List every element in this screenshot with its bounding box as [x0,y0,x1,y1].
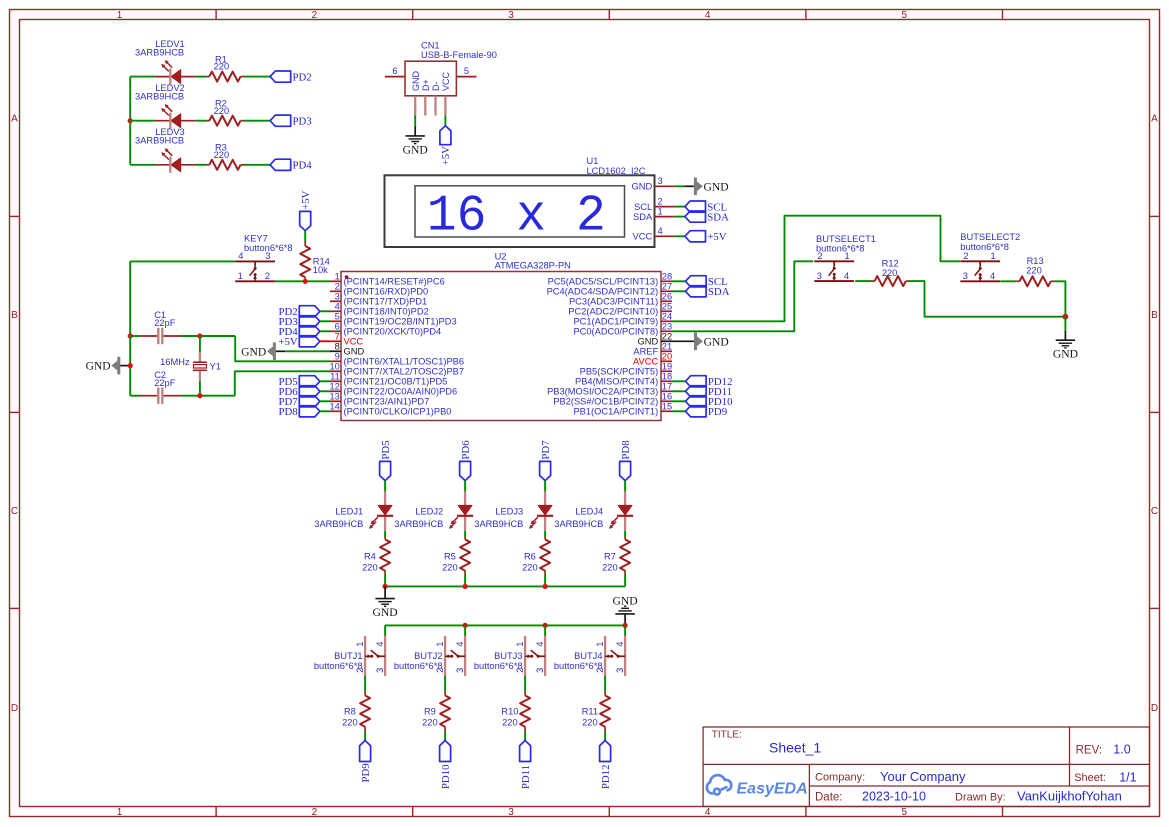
net flag PD3 at U2 [278,316,319,328]
wire PD5 to U2 [320,380,330,382]
svg-text:PD6: PD6 [460,440,472,460]
svg-text:LEDJ1: LEDJ1 [335,506,363,516]
svg-text:3: 3 [508,807,514,818]
svg-text:3: 3 [615,668,625,673]
wire BUTJ2 to R9 [444,676,446,692]
wire rail to BUTJ2 [464,625,466,636]
wire LED ground rail [385,585,625,587]
svg-text:GND: GND [632,182,653,192]
net flag PD4 at U2 [278,326,319,338]
svg-text:1: 1 [117,10,123,21]
net flag PD2 [270,71,312,83]
svg-text:220: 220 [422,717,438,727]
svg-text:220: 220 [602,562,618,572]
svg-text:PD10: PD10 [440,764,452,789]
wire U2 pin23 to BUTSELECT1 [672,261,813,331]
svg-text:3ARB9HCB: 3ARB9HCB [394,519,443,529]
ground flag GND at left bus [86,357,131,375]
wire PD7 to U2 [320,400,330,402]
wire R10 to PD11 flag [524,732,526,741]
ground flag GND at U2 pin8 [241,343,276,361]
junction rail LEDJ1 [383,584,388,589]
net flag PD3 [270,115,312,127]
svg-text:5: 5 [902,807,908,818]
junction left bus at C1 [128,333,133,338]
wire C1 row [130,335,140,337]
svg-text:button6*6*8: button6*6*8 [960,242,1009,252]
wire U2 to SDA flag [672,290,686,292]
net flag PD7 at U2 [278,396,319,408]
svg-text:LCD1602_I2C: LCD1602_I2C [587,166,646,176]
svg-text:10k: 10k [313,265,328,275]
resistor R13 220 [1016,256,1054,286]
svg-text:16: 16 [662,392,672,402]
net flag PD10 below R9 [440,741,452,790]
power flag +5V above R14 [300,190,312,230]
svg-text:2: 2 [312,807,318,818]
wire +5V to U2 pin7 [320,340,330,342]
svg-text:8: 8 [335,342,340,352]
wire LEDJ1 to R4 [384,531,386,537]
wire PD2 to U2 [320,310,330,312]
svg-text:1: 1 [117,807,123,818]
wire PD8 to U2 [320,410,330,412]
svg-text:13: 13 [329,392,339,402]
junction rail LEDJ3 [543,584,548,589]
svg-text:6: 6 [392,66,397,76]
svg-text:3: 3 [817,271,822,281]
ground symbol inverted above button rail [613,595,638,614]
module U1 LCD1602_I2C [385,156,675,247]
wire LCD SCL pin [675,206,685,208]
net flag SDA at U2 [686,286,730,298]
svg-text:11: 11 [330,372,340,382]
svg-text:220: 220 [522,562,538,572]
svg-text:VCC: VCC [441,71,451,91]
wire R9 to PD10 flag [444,732,446,741]
svg-text:22: 22 [662,332,672,342]
net flag PD6 at U2 [278,386,319,398]
svg-text:220: 220 [214,62,230,72]
svg-text:2023-10-10: 2023-10-10 [862,789,926,803]
svg-text:AVCC: AVCC [633,357,658,367]
wire PD5 flag to LEDJ1 [384,481,386,492]
wire rail to ground left [384,586,386,598]
svg-text:PD11: PD11 [520,765,532,789]
ground symbol under CN1 [403,136,428,157]
svg-text:GND: GND [613,595,638,608]
svg-text:3: 3 [375,668,385,673]
wire R1 to PD2 flag [244,76,271,78]
capacitor C1 [140,310,181,344]
svg-text:(PCINT17/TXD)PD1: (PCINT17/TXD)PD1 [344,297,428,307]
wire LCD SDA pin [675,216,685,218]
wire BUTSELECT2 to R13 [1000,280,1016,282]
svg-text:(PCINT20/XCK/T0)PD4: (PCINT20/XCK/T0)PD4 [344,327,442,337]
svg-text:5: 5 [464,66,469,76]
net flag PD11 at U2 [686,386,733,398]
resistor R1 220 [206,54,243,81]
pushbutton BUTJ1 [314,636,385,676]
svg-text:R5: R5 [444,552,456,562]
net flag PD12 below R11 [600,741,612,790]
svg-text:Your Company: Your Company [880,769,966,784]
svg-text:1: 1 [991,251,996,261]
LED LEDV2 [135,83,195,129]
ground flag GND at LCD pin 3 [694,178,729,196]
LED LEDV1 [135,39,195,85]
capacitor C2 [140,370,181,404]
svg-text:19: 19 [662,362,672,372]
net flag SCL at U2 [686,276,728,288]
svg-text:BUTSELECT2: BUTSELECT2 [960,232,1020,242]
svg-text:R11: R11 [582,707,598,717]
wire rail to BUTJ3 [544,625,546,636]
svg-text:PD8: PD8 [278,406,297,418]
svg-text:LEDJ2: LEDJ2 [415,506,443,516]
svg-text:4: 4 [335,302,340,312]
svg-text:Date:: Date: [815,791,843,803]
junction on LED bus [128,118,133,123]
svg-text:button6*6*8: button6*6*8 [314,661,363,671]
svg-text:1: 1 [515,642,525,647]
svg-text:BUTSELECT1: BUTSELECT1 [816,234,876,244]
svg-text:4: 4 [705,10,711,21]
svg-text:4: 4 [990,271,995,281]
wire R4 to rail [384,574,386,587]
wire PD8 flag to LEDJ4 [624,481,626,492]
pushbutton KEY7 [235,233,292,281]
svg-text:PB2(SS#/OC1B/PCINT2): PB2(SS#/OC1B/PCINT2) [553,397,658,407]
wire rail to BUTJ4 [624,625,626,636]
svg-text:(PCINT18/INT0)PD2: (PCINT18/INT0)PD2 [344,307,429,317]
svg-text:16MHz: 16MHz [160,357,190,367]
svg-text:button6*6*8: button6*6*8 [474,661,523,671]
wire U2 to PD11 flag [672,390,686,392]
wire R6 to rail [544,574,546,587]
svg-text:R9: R9 [424,707,436,717]
wire GND flag to U2 pin8 [276,350,285,352]
svg-text:16 x 2: 16 x 2 [427,188,606,245]
wire Y1 top to U2 pin9 [235,336,330,361]
svg-text:3: 3 [455,668,465,673]
wire to LEDV2 [130,120,155,122]
net flag PD9 at U2 [686,406,728,418]
svg-text:(PCINT16/RXD)PD0: (PCINT16/RXD)PD0 [344,287,429,297]
wire LEDV3 to R3 [195,164,206,166]
svg-text:18: 18 [662,372,672,382]
svg-text:+5V: +5V [440,146,452,165]
svg-text:PC5(ADC5/SCL/PCINT13): PC5(ADC5/SCL/PCINT13) [548,277,659,287]
wire to LEDV1 [130,76,155,78]
pushbutton BUTJ4 [554,636,625,676]
svg-text:GND: GND [373,606,398,619]
svg-text:3ARB9HCB: 3ARB9HCB [135,47,184,57]
wire KEY7 pin2 to U2 pin1 [275,280,330,282]
resistor R8 220 [342,692,370,732]
LED LEDJ3 [474,492,553,531]
svg-text:SCL: SCL [634,202,652,212]
svg-text:Drawn By:: Drawn By: [955,791,1006,803]
svg-text:220: 220 [442,562,458,572]
svg-text:A: A [1151,114,1158,125]
wire PD3 to U2 [320,320,330,322]
svg-text:D: D [11,703,18,714]
svg-text:PD9: PD9 [360,763,372,782]
wire LED cathode bus [129,77,131,165]
svg-text:23: 23 [662,322,672,332]
svg-text:(PCINT6/XTAL1/TOSC1)PB6: (PCINT6/XTAL1/TOSC1)PB6 [344,357,465,367]
svg-text:R10: R10 [501,707,518,717]
svg-text:21: 21 [662,342,672,352]
resistor R3 220 [206,143,243,170]
svg-text:4: 4 [844,271,849,281]
net flag PD6 above LEDJ2 [460,440,472,481]
net flag PD5 at U2 [278,376,319,388]
svg-text:PD7: PD7 [540,440,552,460]
wire +5V to R14 [304,231,306,242]
svg-text:GND: GND [1053,348,1078,361]
svg-text:LEDJ4: LEDJ4 [575,506,603,516]
svg-text:BUTJ4: BUTJ4 [574,651,602,661]
svg-text:3ARB9HCB: 3ARB9HCB [135,136,184,146]
svg-text:220: 220 [882,268,898,278]
ground flag GND at U2 pin22 [694,333,729,351]
svg-text:1: 1 [658,206,663,216]
wire U2 to SCL flag [672,280,686,282]
power flag +5V at U2 pin7 [278,336,319,348]
net flag PD8 above LEDJ4 [620,440,632,480]
ground symbol LED rail [373,599,398,620]
svg-text:R6: R6 [524,552,536,562]
svg-text:9: 9 [335,352,340,362]
svg-text:D-: D- [431,82,441,92]
wire junction to ground [1064,317,1066,331]
svg-text:REV:: REV: [1076,745,1102,757]
svg-text:17: 17 [662,382,672,392]
svg-text:220: 220 [582,717,598,727]
junction rail LEDJ2 [463,584,468,589]
resistor R10 220 [501,692,530,732]
svg-text:PC2(ADC2/PCINT10): PC2(ADC2/PCINT10) [568,307,658,317]
svg-text:28: 28 [662,272,672,282]
svg-text:Y1: Y1 [210,362,221,372]
resistor R6 220 [522,537,550,574]
wire U2 to PD10 flag [672,400,686,402]
svg-text:A: A [11,114,18,125]
svg-text:20: 20 [662,352,672,362]
net flag PD2 at U2 [278,306,319,318]
svg-text:PB5(SCK/PCINT5): PB5(SCK/PCINT5) [580,367,659,377]
connector CN1 USB-B-Female-90 [385,40,497,115]
svg-text:PD4: PD4 [293,160,313,172]
wire R5 to rail [464,574,466,587]
svg-text:SDA: SDA [708,286,730,298]
wire R2 to PD3 flag [244,120,271,122]
svg-text:24: 24 [662,312,672,322]
svg-text:(PCINT7/XTAL2/TOSC2)PB7: (PCINT7/XTAL2/TOSC2)PB7 [344,367,465,377]
wire LEDV1 to R1 [195,76,206,78]
svg-text:AREF: AREF [633,347,658,357]
svg-text:12: 12 [329,382,339,392]
svg-text:PC4(ADC4/SDA/PCINT12): PC4(ADC4/SDA/PCINT12) [547,287,659,297]
wire ground to button rail [624,614,626,626]
wire U2 pin24 to BUTSELECT2 [672,216,960,322]
net flag PD5 above LEDJ1 [380,440,392,480]
svg-text:PD8: PD8 [620,440,632,459]
svg-text:(PCINT19/OC2B/INT1)PD3: (PCINT19/OC2B/INT1)PD3 [344,317,457,327]
svg-text:GND: GND [704,335,729,348]
svg-text:C: C [1151,506,1158,517]
svg-text:VCC: VCC [344,337,364,347]
svg-text:3ARB9HCB: 3ARB9HCB [314,519,363,529]
svg-text:4: 4 [658,226,663,236]
svg-text:2: 2 [265,271,270,281]
junction BUTSELECT common [1063,314,1069,320]
svg-text:15: 15 [662,402,672,412]
wire PD6 to U2 [320,390,330,392]
svg-text:D+: D+ [421,79,431,91]
svg-text:C: C [11,506,18,517]
wire BUTSELECT1 to R12 [855,280,871,282]
wire CN1 pin1 to ground [414,116,416,127]
pushbutton BUTSELECT1 [814,234,876,281]
net flag SCL at LCD [685,201,727,213]
svg-text:SDA: SDA [633,212,653,222]
wire PD7 flag to LEDJ3 [544,481,546,492]
wire LEDJ2 to R5 [464,531,466,537]
svg-text:R13: R13 [1027,256,1044,266]
wire R3 to PD4 flag [244,164,271,166]
wire U2 pin22 to ground flag [672,340,694,342]
svg-text:PC3(ADC3/PCINT11): PC3(ADC3/PCINT11) [569,297,658,307]
svg-text:R4: R4 [364,552,376,562]
svg-text:button6*6*8: button6*6*8 [244,243,293,253]
svg-text:14: 14 [329,402,339,412]
svg-text:PC0(ADC0/PCINT8): PC0(ADC0/PCINT8) [573,327,658,337]
svg-text:2: 2 [335,282,340,292]
svg-text:10: 10 [329,362,339,372]
EasyEDA logo [707,775,808,797]
svg-text:26: 26 [662,292,672,302]
svg-text:PD12: PD12 [600,764,612,789]
svg-text:7: 7 [335,332,340,342]
ground symbol BUTSELECT [1053,340,1078,361]
wire R13 down to junction [1054,281,1066,316]
svg-text:22pF: 22pF [154,378,176,388]
net flag PD4 [270,159,312,171]
junction Y1 bottom [197,393,202,398]
svg-text:4: 4 [535,642,545,647]
pushbutton BUTJ2 [394,636,465,676]
svg-text:3ARB9HCB: 3ARB9HCB [554,519,603,529]
net flag PD8 at U2 [278,406,319,418]
svg-text:1: 1 [355,642,365,647]
pushbutton BUTJ3 [474,636,545,676]
svg-text:2: 2 [658,196,663,206]
svg-text:25: 25 [662,302,672,312]
svg-text:4: 4 [375,642,385,647]
wire left bus C1 to C2 [129,336,131,396]
svg-text:4: 4 [455,642,465,647]
wire R7 to rail [624,574,626,587]
svg-text:VanKuijkhofYohan: VanKuijkhofYohan [1017,788,1122,803]
junction R14 bottom [303,279,308,284]
crystal Y1 16MHz [160,336,221,396]
wire R8 to PD9 flag [364,732,366,741]
svg-text:BUTJ1: BUTJ1 [334,651,362,661]
svg-text:4: 4 [705,807,711,818]
svg-text:Sheet:: Sheet: [1074,772,1106,784]
svg-text:3ARB9HCB: 3ARB9HCB [135,92,184,102]
svg-text:+5V: +5V [707,231,726,243]
svg-text:220: 220 [342,717,358,727]
svg-text:VCC: VCC [633,232,653,242]
svg-text:3ARB9HCB: 3ARB9HCB [474,519,523,529]
pushbutton BUTSELECT2 [960,232,1020,281]
svg-text:R8: R8 [344,707,356,717]
net flag SDA at LCD [685,211,729,223]
svg-text:PB1(OC1A/PCINT1): PB1(OC1A/PCINT1) [573,407,658,417]
LED LEDJ2 [394,492,473,531]
resistor R12 220 [871,259,909,287]
junction Y1 top [197,333,202,338]
junction left bus at GND [128,363,133,368]
svg-text:button6*6*8: button6*6*8 [554,661,603,671]
svg-text:D: D [1151,703,1158,714]
svg-text:GND: GND [638,337,659,347]
wire BUTJ1 to R8 [364,676,366,692]
wire U2 to PD9 flag [672,410,686,412]
svg-text:(PCINT23/AIN1)PD7: (PCINT23/AIN1)PD7 [344,397,430,407]
svg-text:3: 3 [508,10,514,21]
wire Y1 bottom to U2 pin10 [235,371,330,395]
wire PD6 flag to LEDJ2 [464,481,466,492]
svg-text:PB4(MISO/PCINT4): PB4(MISO/PCINT4) [575,377,658,387]
svg-text:BUTJ2: BUTJ2 [414,651,442,661]
svg-text:1: 1 [435,642,445,647]
resistor R4 220 [362,537,390,574]
svg-text:27: 27 [662,282,672,292]
wire LEDJ3 to R6 [544,531,546,537]
svg-text:Sheet_1: Sheet_1 [769,740,821,756]
wire rail to BUTJ1 [384,625,386,636]
net flag PD9 below R8 [360,741,372,783]
svg-text:PD5: PD5 [380,440,392,459]
svg-text:1: 1 [595,642,605,647]
wire PD4 to U2 [320,330,330,332]
svg-text:5: 5 [335,312,340,322]
wire R11 to PD12 flag [604,732,606,741]
svg-text:ATMEGA328P-PN: ATMEGA328P-PN [495,260,571,270]
svg-text:GND: GND [411,71,421,92]
wire LCD VCC pin [675,235,685,237]
svg-text:220: 220 [214,150,230,160]
net flag PD7 above LEDJ3 [540,440,552,481]
svg-text:1: 1 [335,272,340,282]
svg-text:4: 4 [238,251,243,261]
wire U2 to PD12 flag [672,380,686,382]
svg-text:BUTJ3: BUTJ3 [494,651,522,661]
svg-text:PC1(ADC1/PCINT9): PC1(ADC1/PCINT9) [573,317,658,327]
svg-text:B: B [11,310,18,321]
wire C2 row [130,395,140,397]
resistor R14 10k [300,242,330,282]
svg-text:PD9: PD9 [708,406,727,418]
power flag +5V at LCD [685,231,727,243]
svg-text:1: 1 [238,271,243,281]
svg-text:220: 220 [1026,265,1042,275]
